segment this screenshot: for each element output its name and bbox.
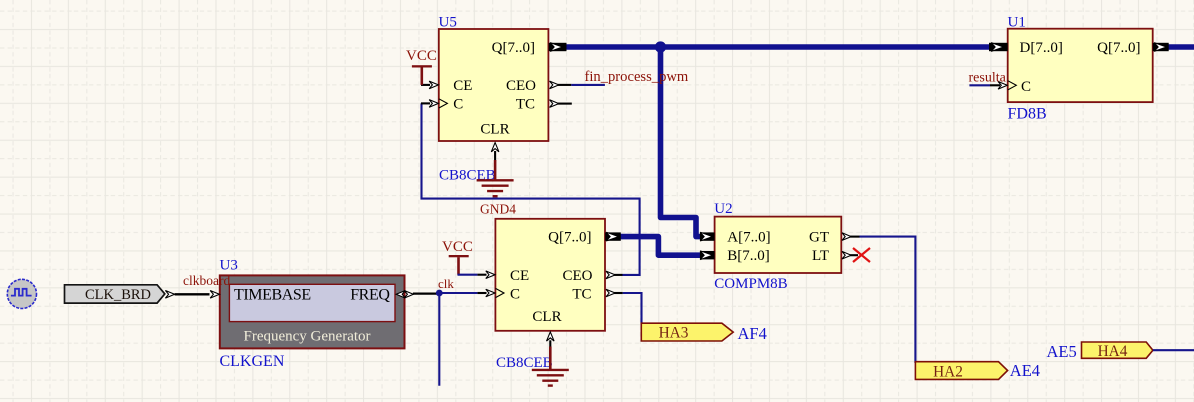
U1 pin D bus entry (989, 43, 1008, 51)
svg-text:FD8B: FD8B (1008, 106, 1047, 123)
junction dot clk (436, 290, 443, 297)
bus vertical from junction down to U2.A (661, 47, 701, 237)
svg-text:LT: LT (812, 248, 829, 264)
svg-text:TC: TC (572, 286, 591, 302)
svg-text:clk: clk (438, 276, 454, 291)
svg-text:TIMEBASE: TIMEBASE (234, 287, 311, 304)
svg-text:fin_process_pwm: fin_process_pwm (585, 69, 689, 85)
bus Q[7..0] from U5 to U1 (567, 44, 990, 50)
lower pin Q[7..0] bus entry (605, 232, 621, 240)
svg-text:HA4: HA4 (1098, 343, 1128, 360)
svg-text:Q[7..0]: Q[7..0] (1097, 40, 1140, 56)
svg-text:CEO: CEO (506, 78, 536, 94)
svg-text:CLR: CLR (480, 122, 509, 138)
IC lower counter CB8CEB body (495, 219, 605, 331)
svg-text:GND4: GND4 (480, 202, 516, 217)
U2 pin GT (arrow+line) (842, 233, 851, 241)
svg-text:B[7..0]: B[7..0] (727, 248, 770, 264)
lower pin C (line+arrow+clock wedge) (477, 292, 486, 294)
svg-text:CLKGEN: CLKGEN (220, 353, 285, 370)
wire TC to HA3 (623, 293, 642, 325)
svg-text:VCC: VCC (406, 48, 437, 64)
svg-text:VCC: VCC (442, 239, 473, 255)
svg-text:TC: TC (516, 97, 535, 113)
U1 pin Q bus entry (1153, 43, 1169, 51)
svg-text:FREQ: FREQ (350, 287, 390, 304)
port HA3 (641, 323, 733, 341)
svg-text:A[7..0]: A[7..0] (727, 230, 770, 246)
no-ERC marker red X on LT (853, 248, 870, 262)
wire clk vertical down (438, 293, 440, 386)
lower pin CE (line+arrow) (477, 274, 486, 276)
svg-text:Q[7..0]: Q[7..0] (548, 230, 591, 246)
wire U5.C net (C of U5 to CEO of lower counter) (422, 103, 640, 275)
bus Q[7..0] lower counter to U2.B (621, 237, 701, 256)
wire HA4 out to right edge (1153, 349, 1194, 351)
bus junction (655, 41, 666, 52)
svg-text:HA2: HA2 (933, 363, 963, 380)
svg-text:C: C (510, 286, 520, 302)
U3 pin TIMEBASE input arrow (210, 291, 219, 299)
bus U1.Q out to right edge (1169, 44, 1194, 50)
wire CLK_BRD to U3 (175, 293, 210, 295)
svg-text:GT: GT (809, 230, 829, 246)
svg-text:AE5: AE5 (1047, 342, 1077, 361)
svg-text:COMPM8B: COMPM8B (714, 276, 787, 292)
lower pin TC (arrow+line) (606, 289, 615, 297)
U5 pin CLR (up arrow + line) (491, 143, 499, 152)
wire GT to HA2 (860, 237, 916, 363)
port HA2 (915, 362, 1007, 380)
U1 pin C (wire+arrow+clock wedge) (969, 84, 990, 86)
IC U2 COMPM8B body (715, 217, 842, 273)
port HA4 (1082, 342, 1153, 358)
sheet entry arrow after CLK_BRD (165, 291, 174, 299)
wire FREQ to clk junction (black then blue) (436, 292, 477, 294)
U5 pin C (line+arrow+clock wedge) (421, 102, 430, 104)
U5 pin CE (line+arrow) (421, 84, 430, 86)
wire VCC to CE (lower) (458, 274, 478, 276)
svg-text:CLK_BRD: CLK_BRD (85, 287, 151, 303)
svg-text:U3: U3 (220, 258, 238, 274)
port CLK_BRD (65, 285, 165, 303)
svg-text:C: C (1021, 79, 1031, 95)
U2 pin LT (arrow+line) (842, 251, 851, 259)
svg-text:C: C (453, 97, 463, 113)
svg-text:CEO: CEO (563, 268, 593, 284)
IC U1 FD8B body (1008, 29, 1153, 102)
U3 inner panel (229, 284, 395, 321)
U5 pin Q[7..0] bus entry (549, 43, 567, 51)
svg-text:AF4: AF4 (738, 324, 767, 343)
svg-text:CE: CE (510, 268, 529, 284)
IC U3 CLKGEN outer body (220, 275, 405, 348)
U3 pin FREQ (double arrow + line) (396, 291, 405, 299)
svg-text:clkboard: clkboard (183, 273, 230, 288)
ground GND (below U5 CLR) (494, 160, 497, 179)
U5 pin CEO (arrow+line) (550, 81, 559, 89)
svg-text:U2: U2 (714, 201, 732, 217)
svg-text:HA3: HA3 (659, 325, 689, 342)
svg-text:CB8CEB: CB8CEB (496, 355, 553, 371)
lower pin CLR (up arrow + line) (547, 332, 555, 341)
U2 pin B bus entry (700, 251, 715, 259)
svg-text:Q[7..0]: Q[7..0] (492, 40, 535, 56)
svg-text:AE4: AE4 (1010, 361, 1040, 380)
ground (below lower CLR) (549, 347, 552, 370)
svg-text:U5: U5 (439, 15, 457, 31)
svg-text:CE: CE (453, 78, 472, 94)
U5 pin TC (arrow+line) (550, 100, 559, 108)
U2 pin A bus entry (700, 232, 715, 240)
svg-text:U1: U1 (1008, 14, 1026, 30)
wire CEO stub (fin_process_pwm) (571, 84, 605, 86)
lower pin CEO (arrow+line) (606, 271, 615, 279)
IC U5 CB8CEB body (439, 29, 549, 141)
svg-text:resulta: resulta (969, 70, 1007, 85)
svg-text:Frequency Generator: Frequency Generator (243, 329, 370, 345)
svg-text:D[7..0]: D[7..0] (1020, 40, 1063, 56)
svg-text:CLR: CLR (532, 309, 561, 325)
clock source icon (7, 279, 36, 308)
